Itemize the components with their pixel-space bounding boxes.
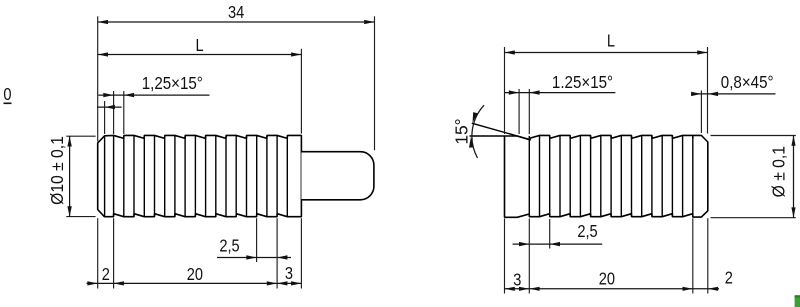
svg-text:0,8×45°: 0,8×45° bbox=[721, 73, 774, 92]
dimension L (right) line with arrows bbox=[505, 52, 708, 54]
right part ribbed body outline bbox=[505, 135, 708, 217]
svg-text:2,5: 2,5 bbox=[219, 236, 239, 255]
top edge extension for angle dim (right part) bbox=[470, 135, 505, 137]
svg-text:3: 3 bbox=[285, 264, 293, 283]
secondary chamfer dim extension (left) bbox=[104, 101, 106, 134]
right part rib lines bbox=[528, 136, 530, 216]
dimension L (left) line with arrows bbox=[98, 54, 302, 56]
dim 2,5 (right) extension line bbox=[549, 219, 551, 249]
diameter 10 dim extension lines bbox=[66, 135, 95, 137]
green marker bottom right bbox=[795, 295, 800, 307]
chamfer dim 1,25x15 extension lines (left) bbox=[113, 91, 115, 134]
left part tip pin with rounded end bbox=[301, 152, 374, 200]
dimension 34 extension line left bbox=[97, 16, 99, 141]
svg-text:20: 20 bbox=[187, 265, 203, 284]
dimension L (left) extension line right bbox=[300, 49, 302, 134]
svg-text:Ø10 ± 0,1: Ø10 ± 0,1 bbox=[47, 136, 67, 205]
left part rib lines bbox=[104, 136, 106, 216]
bottom dim line (left) 2/20/3 bbox=[87, 282, 302, 284]
15 degree text bbox=[452, 118, 472, 144]
dim 2,5 (left) line with outside arrows bbox=[217, 257, 291, 259]
left part ribbed body outline bbox=[98, 135, 302, 216]
bottom dim line (right) 3/20/2 bbox=[505, 288, 720, 290]
svg-text:2: 2 bbox=[102, 265, 110, 284]
svg-text:L: L bbox=[607, 31, 615, 50]
svg-text:34: 34 bbox=[228, 3, 244, 22]
svg-text:15°: 15° bbox=[452, 118, 472, 144]
secondary chamfer dim line with arrow (left) bbox=[97, 106, 122, 108]
svg-text:Ø ± 0,1: Ø ± 0,1 bbox=[769, 146, 789, 197]
svg-text:1,25×15°: 1,25×15° bbox=[142, 74, 203, 93]
svg-text:0: 0 bbox=[3, 85, 11, 104]
diameter 10 dim line with arrows bbox=[69, 136, 71, 216]
dim 2,5 (left) extension lines bbox=[256, 218, 258, 262]
bottom extension lines (right) bbox=[504, 219, 506, 294]
bottom extension lines (left) bbox=[97, 218, 99, 288]
dimension L (right) extension lines bbox=[504, 47, 506, 134]
svg-text:2: 2 bbox=[725, 268, 733, 287]
svg-text:1.25×15°: 1.25×15° bbox=[552, 73, 613, 92]
chamfer dim 1.25x15 line with outside arrows (right) bbox=[505, 92, 616, 94]
chamfer dim 0,8x45 extension line (right) bbox=[700, 91, 702, 134]
dim 2,5 (right) line with outside arrows bbox=[513, 243, 603, 245]
dimension 34 extension line right bbox=[374, 16, 376, 150]
svg-text:2,5: 2,5 bbox=[577, 222, 597, 241]
diameter dim extension lines (right) bbox=[711, 135, 796, 137]
diameter dim line with arrows (right) bbox=[793, 136, 795, 218]
15 degree angle dim arc with arrows bbox=[472, 105, 484, 158]
diameter 10 text bbox=[47, 136, 67, 205]
dimension 34 line with arrows bbox=[98, 21, 375, 23]
chamfer dim 1,25x15 line with outside arrows (left) bbox=[98, 94, 209, 96]
svg-text:L: L bbox=[196, 36, 204, 55]
svg-text:3: 3 bbox=[513, 270, 521, 289]
15 degree chamfer line extended (right part) bbox=[472, 123, 531, 140]
chamfer dim 0,8x45 line with outside arrows (right) bbox=[694, 93, 776, 95]
svg-text:20: 20 bbox=[599, 269, 615, 288]
diameter tolerance text (right) bbox=[769, 146, 789, 197]
chamfer dim 1.25x15 extension lines (right) bbox=[518, 89, 520, 134]
